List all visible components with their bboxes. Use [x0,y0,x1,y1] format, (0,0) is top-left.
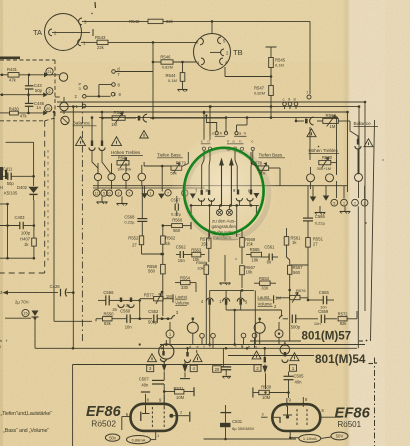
svg-text:R546: R546 [160,55,171,60]
bus y348 [73,347,357,349]
svg-text:K5/105: K5/105 [4,191,18,196]
ground bar right1 [319,206,321,212]
capacitor C551 [291,315,293,324]
svg-text:R563: R563 [191,247,202,252]
circled 6edge [182,190,188,196]
warning triangle b4 [290,353,299,361]
wire R547 down [270,96,272,118]
wire r567 bottom [241,345,243,349]
svg-text:0,22µ: 0,22µ [124,219,135,224]
wire r580 col [336,160,338,165]
big circle right bus [280,345,290,355]
svg-text:10n: 10n [320,305,327,310]
terminal circ b [200,333,205,338]
svg-text:50p: 50p [7,181,15,186]
svg-text:0,1M: 0,1M [275,63,284,68]
svg-text:1: 1 [150,192,152,196]
svg-text:7: 7 [128,192,130,196]
wire col 7 [202,150,204,189]
wire R430 row [0,112,10,114]
svg-text:d: d [189,344,191,349]
svg-text:2: 2 [118,192,120,196]
left long vertical b [72,107,74,293]
boxed 1 [290,365,297,372]
resistor R542 [148,19,163,23]
circled 2r2 [361,199,368,206]
svg-text:C560: C560 [120,308,131,313]
svg-text:transform.: transform. [213,235,232,240]
svg-text:40n: 40n [141,383,149,388]
svg-text:C556: C556 [103,290,114,295]
antenna bar R545 [270,47,272,58]
svg-text:40n: 40n [295,380,303,385]
contact pin left1 [91,141,93,147]
cup b4 [284,352,286,357]
capacitor C505 [284,375,294,377]
diode arrow c [43,110,48,115]
ground bar mid3 [224,255,226,282]
circled 1r [341,199,348,206]
socket cups row [198,198,204,201]
svg-text:10M: 10M [262,395,271,400]
svg-text:R553: R553 [259,276,270,281]
arrow up 2 [230,165,232,206]
svg-text:TB: TB [233,48,243,57]
svg-text:15n: 15n [178,258,186,263]
svg-text:330: 330 [181,285,189,290]
cup b1 [162,351,164,356]
svg-text:30k+1M: 30k+1M [317,166,331,171]
svg-text:C562: C562 [176,244,187,249]
terminal circ d [241,333,246,338]
warning triangle left1 [76,137,86,146]
wire pots right [310,167,312,174]
right long vertical c [358,107,360,174]
bus line 2 [60,111,348,113]
wire e d up [203,112,205,140]
svg-text:5: 5 [103,192,105,196]
svg-text:„Bass“ and „Volume“: „Bass“ and „Volume“ [3,428,49,434]
svg-text:2: 2 [354,201,356,205]
bus line 0 [57,101,365,103]
svg-text:C505: C505 [294,374,305,379]
svg-text:Lautst.: Lautst. [175,295,188,300]
svg-text:1n: 1n [36,105,41,110]
svg-text:l: l [0,344,1,349]
wire TA pin3 to R542 [82,20,148,22]
wire R542 to TB and right [163,20,310,22]
wire pots right to bus [310,182,312,189]
wire R582 [102,117,112,119]
svg-text:82k: 82k [340,321,348,326]
svg-text:R543: R543 [95,35,106,40]
warning triangle b2 [193,354,202,362]
wire top right down [309,21,311,94]
svg-text:10n: 10n [125,325,133,330]
ground bar right2 [344,207,346,212]
svg-text:c: c [212,131,214,136]
socket cups right mid [206,298,213,302]
meter 50v left [105,434,119,441]
right long vertical b [347,112,349,192]
wire TA pin1 [81,41,97,43]
wire TB pin4 to node [224,67,226,77]
svg-text:Volume: Volume [258,301,273,306]
svg-text:2: 2 [180,411,182,415]
wires terminals up [206,116,216,132]
chassis arrow b2 [184,363,186,366]
connector TA [45,14,82,51]
wire right tube col [264,391,266,393]
svg-text:500p: 500p [291,325,301,330]
svg-text:D402: D402 [17,185,28,190]
svg-text:2: 2 [364,201,366,205]
circled 20 [45,105,52,112]
svg-text:C411: C411 [3,167,13,172]
svg-text:Balance: Balance [354,121,372,127]
resistor R543 [97,40,108,44]
resistor R551 [306,238,311,248]
svg-text:50V: 50V [336,434,344,439]
tube Ro502 internals [145,407,147,413]
wire mid [0,94,45,96]
tube Ro501 pins top [286,398,288,407]
ground triangle right2 [323,196,330,201]
meter 50V right [331,432,348,440]
svg-text:0,1M: 0,1M [168,78,177,83]
chassis arrow b1 [163,362,165,365]
terminal circ c [254,322,265,333]
contact cup balance right [305,119,308,124]
svg-text:1: 1 [292,366,295,371]
wire TB pin2 [210,51,221,53]
svg-text:330: 330 [261,286,269,291]
ground triangle mid1 [141,193,148,198]
svg-text:11: 11 [95,192,99,196]
meter 088mA [127,436,151,444]
green circle [184,148,264,234]
wire R578 stub [269,167,280,169]
wire R546 line [153,61,161,63]
module57 right border [371,120,375,341]
wire cups down [92,151,98,175]
resistor R547 [269,86,274,96]
transformer terminal 1 [217,209,223,215]
cup b3 [264,357,266,363]
right long vertical d [364,102,366,311]
svg-text:15k: 15k [246,242,254,247]
right long vertical a [336,118,338,175]
svg-text:Lautst.: Lautst. [258,295,271,300]
svg-text:H: H [0,185,3,190]
wire C428 down [72,293,74,349]
circled 6a [107,190,113,196]
svg-text:0,82M: 0,82M [254,91,265,96]
svg-text:C507: C507 [139,377,150,382]
wire R562 [317,120,323,122]
speckle 1 [318,146,320,148]
svg-text:2: 2 [256,366,259,371]
box Ro502 border [73,364,262,366]
pot terminals row right [307,174,315,182]
svg-text:R554: R554 [180,276,191,281]
wire balance right col [309,127,311,160]
boxed 20 [213,366,222,373]
wire C531 [204,438,296,440]
wires under volume [225,305,227,310]
warning triangle right2 [364,139,373,147]
bus mid line [93,185,347,187]
svg-text:500p: 500p [148,320,158,325]
boxed 2 [254,365,261,372]
circled 2r [352,199,359,206]
wire R431 row [0,74,8,76]
svg-text:Höhen Trebles: Höhen Trebles [111,150,141,155]
connector TB [194,34,231,71]
svg-text:R550: R550 [104,311,115,316]
svg-text:R562: R562 [165,235,176,240]
circled 7b [165,190,171,196]
svg-text:3: 3 [149,366,152,371]
contact pin left2 [101,141,103,147]
svg-text:6n: 6n [267,260,272,265]
circled dot mid [275,330,283,338]
pot circle left2 [61,116,69,124]
wire y318 left [5,317,31,319]
meter 118mA [299,435,321,443]
svg-text:c: c [283,96,285,101]
svg-text:C531: C531 [232,419,243,424]
svg-text:C552: C552 [148,309,159,314]
svg-text:zu den Aus-: zu den Aus- [212,218,236,223]
svg-text:1M: 1M [330,124,336,129]
junction dots bus [165,343,168,346]
svg-text:20: 20 [215,367,220,372]
svg-text:Tiefen Bass: Tiefen Bass [259,153,283,158]
svg-text:1,18mA: 1,18mA [303,436,317,441]
terminal 7 top right [307,95,311,99]
ground caps left [222,348,224,367]
warning triangle b1 [148,354,157,362]
tube Ro502 pin bottom [155,431,157,439]
wire transformer [219,205,221,209]
svg-text:47k: 47k [20,113,28,118]
svg-text:R560: R560 [172,218,183,223]
tube Ro501 envelope [272,404,320,431]
wire left col mid [33,200,35,226]
resistor R557 [288,265,292,274]
circled 2 [46,88,53,95]
wire cols down [209,205,211,237]
svg-text:5: 5 [333,201,335,205]
svg-text:10M: 10M [176,395,185,400]
svg-text:560: 560 [293,270,301,275]
svg-text:R552: R552 [128,235,139,240]
wire col 8 [209,150,211,160]
speckle 5 [382,159,383,160]
svg-text:15: 15 [23,312,27,316]
svg-text:50k: 50k [259,171,265,176]
svg-text:0: 0 [109,192,111,196]
wire R579 stub [144,165,171,167]
svg-text:TA: TA [33,28,42,37]
svg-text:C428: C428 [50,284,61,289]
svg-text:20: 20 [46,107,50,111]
top edge mark [94,2,97,8]
tube Ro502 pin right [173,415,189,417]
resistor R545 [269,58,274,68]
diode arrow b [43,92,48,97]
terminal circ a [187,322,198,333]
circled 5r [331,199,338,206]
wire volume left [124,299,140,301]
resistor R569 [240,238,245,248]
circled 2a [115,190,121,196]
cup b2 [186,352,188,357]
svg-text:Rö502: Rö502 [91,418,116,428]
resistor R430 [10,111,19,115]
wire pots to bus [97,181,99,190]
speckle 2 [365,222,366,223]
boxed 4 [190,365,197,372]
circled 7a [126,190,132,196]
wire mid verticals low [169,338,171,345]
wire col 6 [252,151,254,161]
svg-text:15k: 15k [201,241,209,246]
svg-text:21: 21 [47,70,51,74]
svg-text:100p: 100p [21,231,31,236]
wire R543 to node [108,41,197,43]
bus y344 [160,344,365,346]
svg-text:gangsstufen: gangsstufen [212,224,237,229]
svg-text:Volume: Volume [175,300,190,305]
wire R544 top [182,62,184,73]
wire R577 col [139,300,141,318]
svg-text:R576: R576 [296,288,306,293]
dash border left mid [44,121,46,273]
resistor R567 [240,266,245,275]
ground R544 [182,81,184,89]
ground triangle mid2 [158,194,165,199]
dashed section border top [0,59,55,61]
chassis arrow in circle L [190,194,196,199]
svg-text:82k: 82k [104,321,112,326]
svg-text:C403: C403 [15,215,26,220]
contact pin right [357,139,359,145]
arrow up 1 [221,165,223,206]
edge stubs mid [0,167,3,180]
tube Ro502 pins top [145,394,147,407]
svg-text:27: 27 [132,243,137,248]
svg-text:8µ 350/385V: 8µ 350/385V [232,426,255,431]
chassis arrow in circle R [253,193,259,198]
svg-text:C555: C555 [319,290,330,295]
circled 11 [93,190,100,197]
speckle 3 [91,13,92,14]
svg-text:801(M)57: 801(M)57 [302,330,352,343]
svg-text:R542: R542 [129,19,140,24]
svg-text:1: 1 [343,201,345,205]
circled 21 [46,68,53,75]
svg-text:1M: 1M [111,122,117,127]
warning triangle left2 [112,137,122,146]
boxed 3 [147,365,154,372]
svg-text:R565: R565 [250,247,261,252]
module54 border left [228,355,296,357]
warning triangle left3 [140,131,149,138]
capacitor C446 [25,102,34,104]
wire col 9 [234,151,236,161]
warning triangle right1 [307,129,316,137]
left long vertical d [91,118,93,141]
wire R580 col [336,165,338,175]
svg-text:1M+30k: 1M+30k [117,166,131,171]
circled 15 [22,309,29,316]
svg-text:R431: R431 [7,67,18,72]
circled 5a [101,190,107,196]
edge stub dark [0,57,20,60]
svg-text:R531: R531 [174,386,185,391]
tube Ro502 envelope [131,404,177,431]
svg-text:50p: 50p [35,88,43,93]
svg-text:R568: R568 [196,260,206,265]
svg-text:C559: C559 [318,309,329,314]
pot terminals row [94,173,101,180]
svg-text:3: 3 [262,412,264,416]
svg-text:10k: 10k [197,266,203,271]
svg-text:R572: R572 [338,311,349,316]
svg-text:H407: H407 [20,236,31,241]
svg-text:27: 27 [313,241,318,246]
resistor R568b [204,265,209,274]
capacitor C531 [225,405,227,412]
wire to arrows [201,200,203,205]
circled 11b [147,190,153,196]
svg-text:560: 560 [173,228,181,233]
wire left col low [0,257,34,259]
wire volume right [276,297,290,299]
svg-text:„Tiefen“und‚Lautstärke“: „Tiefen“und‚Lautstärke“ [1,411,53,417]
svg-text:R530: R530 [261,385,272,390]
capacitor C43 [25,85,34,87]
ground triangle right1 [310,197,317,202]
node R545-R547 [270,68,272,86]
socket pins row [201,190,203,195]
wire R569 top [241,230,243,238]
resistor R544 [180,73,185,82]
svg-text:560: 560 [148,269,156,274]
pot circle left [59,73,67,81]
resistor R546 [161,60,173,64]
wire pot row [97,163,99,173]
wire r554 col [195,283,197,292]
left long vertical c [81,102,83,341]
svg-text:22k: 22k [97,45,105,50]
green circle shadow [186,149,269,238]
svg-text:4: 4 [192,366,195,371]
ground bar mid1 [101,196,103,201]
svg-text:Tiefen Bass: Tiefen Bass [157,153,181,158]
speckle 4 [235,258,236,259]
diode down left [32,311,39,317]
green circle shine [172,134,276,244]
svg-text:10k: 10k [252,258,260,263]
svg-text:C566: C566 [315,214,326,219]
svg-text:2µ 70V-: 2µ 70V- [15,300,30,305]
wire top left col [6,141,34,143]
module57 bottom border [250,340,301,342]
svg-text:R430: R430 [9,107,20,112]
